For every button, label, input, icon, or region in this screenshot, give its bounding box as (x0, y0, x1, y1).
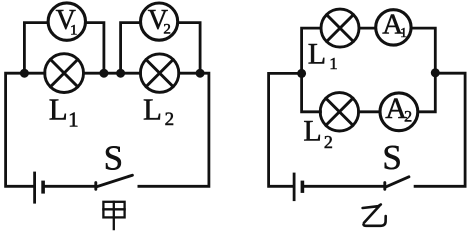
wire bottom branch between lamp and ammeter A2 (359, 110, 381, 113)
wire voltmeter V2 left branch (121, 23, 141, 74)
lamp L1 (right circuit, circle with X) (321, 9, 359, 47)
label L1 (right circuit) (308, 37, 338, 73)
wire bottom branch right (418, 73, 436, 112)
svg-text:2: 2 (404, 109, 412, 126)
svg-text:L: L (49, 92, 68, 127)
svg-text:L: L (143, 92, 162, 127)
wire bottom between battery and switch (45, 185, 96, 188)
node dot D (right junction) (196, 69, 205, 78)
wire top branch left (302, 28, 322, 73)
ammeter A2 (380, 92, 418, 131)
wire voltmeter V1 left branch (24, 23, 48, 74)
node dot E (left junction, right circuit) (297, 69, 306, 78)
wire bottom between battery and switch (304, 185, 385, 188)
label jia (Chinese) (103, 202, 124, 229)
lamp L2 (right circuit, circle with X) (320, 93, 358, 131)
wire left edge (269, 73, 302, 186)
label L1 (49, 92, 79, 132)
battery (left circuit) (35, 172, 44, 204)
svg-text:L: L (303, 115, 321, 148)
battery (right circuit) (294, 173, 302, 202)
label L2 (right circuit) (303, 115, 333, 152)
svg-text:S: S (104, 139, 123, 178)
svg-text:2: 2 (163, 22, 171, 38)
svg-text:L: L (308, 37, 326, 70)
wire voltmeter V1 right branch (85, 23, 104, 74)
svg-text:S: S (382, 138, 401, 177)
wire between lamp L2 and right corner (179, 72, 201, 75)
voltmeter V2 (141, 3, 178, 40)
switch S (left circuit) (96, 175, 133, 189)
node dot A (left junction) (20, 69, 29, 78)
node dot F (right junction, right circuit) (431, 68, 440, 77)
ammeter A1 (376, 8, 411, 45)
wire bottom right and right edge (415, 73, 465, 186)
wire left edge of left loop (6, 73, 45, 186)
svg-text:2: 2 (165, 109, 175, 130)
label L2 (143, 92, 174, 130)
node dot B (V1 right junction) (99, 69, 108, 78)
svg-text:1: 1 (70, 23, 78, 39)
lamp L1 (circle with X) (45, 54, 84, 93)
wire bottom branch left (302, 73, 321, 111)
wire top branch between lamp and ammeter A1 (359, 27, 376, 30)
node dot C (V2 left junction) (116, 69, 125, 78)
switch S (right circuit) (385, 177, 409, 190)
voltmeter V1 (48, 3, 85, 40)
lamp L2 (circle with X) (140, 54, 178, 92)
svg-text:1: 1 (400, 26, 407, 41)
wire bottom right and right edge (139, 73, 209, 186)
svg-text:2: 2 (324, 132, 333, 152)
label yi (Chinese) (363, 205, 386, 226)
wire voltmeter V2 right branch (178, 23, 201, 74)
svg-text:1: 1 (329, 54, 338, 73)
wire top branch right (411, 28, 435, 73)
svg-text:1: 1 (68, 108, 79, 132)
wire between lamp L1 and lamp L2 (84, 72, 141, 75)
